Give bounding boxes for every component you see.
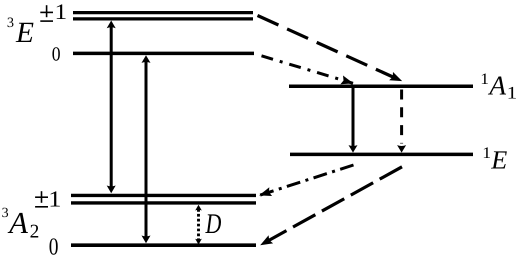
label +-1 of 3E level	[40, 5, 53, 21]
label +-1 of 3A2 level	[35, 191, 48, 207]
arrow zero-field splitting D (dotted, double-headed)	[197, 209, 200, 240]
svg-text:1: 1	[55, 0, 68, 24]
level 1E line	[290, 153, 473, 157]
svg-text:1: 1	[507, 83, 517, 103]
ISC 1E to 3A2(+-1), dash-dot diagonal	[260, 165, 354, 195]
ISC 3E(+-1) to 1A1, long-dashed diagonal	[258, 16, 402, 82]
level 3E ms=+-1 upper line	[73, 11, 253, 14]
svg-text:1: 1	[48, 186, 61, 211]
svg-text:E: E	[490, 145, 507, 174]
level 3A2 ms=+-1 upper line	[71, 194, 256, 197]
svg-text:1: 1	[480, 71, 489, 88]
svg-text:E: E	[15, 17, 34, 49]
ISC 3E(0) to 1A1, dash-dot diagonal	[262, 56, 354, 84]
arrow optical transition ms=0 (3A2 to 3E, double-headed)	[145, 60, 148, 239]
arrow 1A1 to 1E solid	[352, 88, 355, 148]
svg-text:1: 1	[482, 145, 491, 162]
level 3A2 ms=0 line	[71, 243, 256, 247]
level 3E ms=0 line	[73, 52, 254, 56]
arrow optical transition ms=+-1 (3A2 to 3E, double-headed)	[110, 25, 113, 189]
svg-text:3: 3	[2, 206, 9, 221]
level 1A1 line	[289, 84, 473, 88]
arrow 1A1 to 1E dashed	[400, 90, 403, 144]
ISC 1E to 3A2(0), long-dashed diagonal	[261, 167, 403, 245]
level 3A2 ms=+-1 lower line	[71, 201, 256, 204]
svg-text:A: A	[487, 71, 506, 101]
svg-text:0: 0	[52, 43, 61, 65]
svg-text:2: 2	[30, 221, 40, 242]
svg-text:A: A	[7, 206, 28, 240]
svg-text:0: 0	[49, 234, 59, 260]
level 3E ms=+-1 lower line	[73, 17, 253, 20]
svg-text:D: D	[205, 209, 222, 240]
svg-text:3: 3	[7, 15, 14, 31]
